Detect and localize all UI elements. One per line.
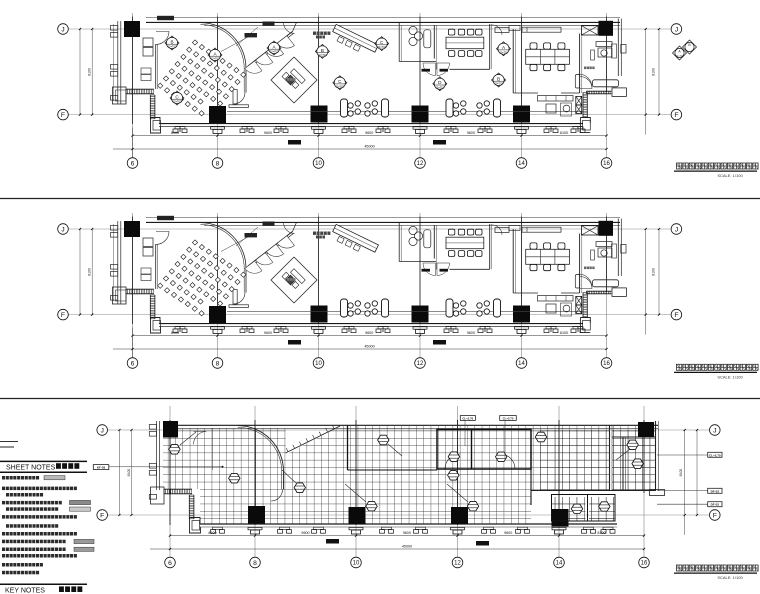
marker B bbox=[492, 73, 506, 87]
closet boxes bbox=[143, 38, 153, 47]
band3 right step bbox=[650, 490, 665, 496]
dim label box bbox=[433, 140, 446, 145]
grid bubble 10 band3 bbox=[351, 557, 362, 568]
svg-text:9600: 9600 bbox=[467, 131, 475, 135]
grid bubble 16 bbox=[601, 158, 612, 169]
grid bubble F right band3 bbox=[710, 510, 721, 521]
band3 room divider bbox=[471, 430, 473, 470]
bench and shelf at exit bbox=[233, 90, 237, 105]
grid line 6 bbox=[132, 13, 134, 158]
svg-text:9600: 9600 bbox=[403, 531, 411, 535]
svg-text:J: J bbox=[100, 427, 103, 434]
svg-text:9600: 9600 bbox=[365, 131, 373, 135]
right elevation double marker bbox=[673, 40, 697, 60]
right dim lines band3 bbox=[684, 430, 686, 535]
tiny room text bbox=[313, 32, 316, 35]
plan title band 3 bbox=[677, 565, 682, 571]
svg-text:SCALE: 1/100: SCALE: 1/100 bbox=[717, 375, 743, 380]
svg-text:J: J bbox=[713, 427, 716, 434]
column grid10/F bbox=[311, 106, 328, 123]
band3 interior wall bbox=[609, 426, 611, 491]
conference room A walls bbox=[433, 25, 435, 59]
plan title band 2 bbox=[677, 364, 682, 370]
grid line 16 bbox=[606, 13, 608, 158]
svg-text:8100: 8100 bbox=[88, 68, 92, 76]
plan title band 1 bbox=[677, 163, 682, 169]
svg-text:CL=2.70: CL=2.70 bbox=[462, 416, 473, 420]
dim label box band3 bbox=[326, 539, 339, 544]
grid bubble 12 band3 bbox=[452, 557, 463, 568]
rotated reception desk bbox=[271, 57, 317, 103]
svg-text:8100: 8100 bbox=[652, 68, 656, 76]
band3 diagonal ticked edge bbox=[286, 426, 341, 453]
svg-text:F: F bbox=[100, 512, 104, 519]
band3 ceiling symbols bbox=[169, 445, 180, 455]
lounge clusters bbox=[341, 99, 348, 117]
marker A bbox=[208, 48, 222, 62]
grid line J band3 bbox=[108, 429, 710, 431]
grid line 14 bbox=[521, 13, 523, 158]
band3 bulkhead edge bbox=[212, 429, 214, 471]
wall at x400 bbox=[398, 22, 400, 61]
svg-text:02=T02: 02=T02 bbox=[211, 57, 220, 61]
svg-text:B: B bbox=[170, 39, 173, 44]
grid line 8 band3 bbox=[254, 406, 256, 557]
svg-text:8100: 8100 bbox=[127, 469, 131, 477]
dim row1 band3 bbox=[170, 535, 644, 537]
svg-text:9600: 9600 bbox=[264, 131, 272, 135]
grid line J bbox=[69, 28, 671, 30]
svg-text:SCALE: 1/100: SCALE: 1/100 bbox=[717, 575, 743, 580]
conference room B walls bbox=[512, 29, 514, 93]
band3 room door arcs bbox=[445, 454, 460, 469]
grid line 10 bbox=[318, 13, 320, 158]
separator line 1 bbox=[0, 198, 760, 200]
phone booth circles bbox=[409, 26, 417, 34]
svg-text:12: 12 bbox=[417, 161, 424, 167]
svg-text:6: 6 bbox=[131, 160, 135, 167]
floor plan band 2 (reuse) bbox=[58, 213, 682, 368]
grid line 16 in building bbox=[606, 17, 608, 93]
grid bubble 14 band3 bbox=[554, 557, 565, 568]
petal fans bbox=[245, 61, 262, 73]
marker B bbox=[315, 44, 329, 58]
booth seat bbox=[424, 30, 431, 48]
grid bubble F right bbox=[671, 109, 682, 120]
grid line 8 bbox=[217, 13, 219, 158]
grid line 8 in building bbox=[217, 17, 219, 125]
diagonal wall bbox=[248, 32, 293, 67]
svg-text:10: 10 bbox=[315, 161, 322, 167]
column grid16/J bbox=[599, 21, 614, 36]
svg-text:B: B bbox=[497, 76, 500, 81]
grid line 12 bbox=[419, 13, 421, 158]
svg-text:8: 8 bbox=[253, 560, 257, 567]
marker A bbox=[497, 42, 511, 56]
grid line 16 band3 bbox=[643, 406, 645, 557]
grid bubble 16 band3 bbox=[639, 557, 650, 568]
svg-text:CL=2.70: CL=2.70 bbox=[709, 453, 721, 457]
curved wall arc bbox=[200, 23, 246, 69]
office sofa bbox=[593, 80, 619, 87]
desk inner items bbox=[282, 67, 305, 90]
left dim lines band3 bbox=[118, 430, 120, 515]
dim label box band3 bbox=[476, 541, 489, 546]
conference A chairs bbox=[448, 29, 454, 35]
x-braced wall top right bbox=[582, 26, 599, 35]
marker D bbox=[433, 77, 447, 91]
grid line 12 in building bbox=[419, 17, 421, 125]
grid line 10 band3 bbox=[355, 406, 357, 557]
grid bubble 8 band3 bbox=[250, 557, 261, 568]
pantry counters bbox=[538, 96, 574, 102]
band3 left facade bbox=[156, 421, 158, 490]
bottom wall window mullions bbox=[173, 127, 187, 133]
band3 right wall bbox=[655, 421, 657, 491]
svg-text:02=T02: 02=T02 bbox=[173, 100, 182, 104]
grid line 14 band3 bbox=[558, 406, 560, 557]
svg-text:02=T02: 02=T02 bbox=[377, 45, 386, 49]
wall y62.5 with double doors bbox=[399, 61, 436, 63]
separator line 2 bbox=[0, 398, 760, 400]
band3 door arc bbox=[271, 490, 283, 502]
band3 columns bbox=[163, 421, 178, 438]
svg-text:J: J bbox=[61, 26, 64, 33]
svg-text:10: 10 bbox=[353, 561, 360, 567]
svg-text:KF-03: KF-03 bbox=[97, 466, 106, 470]
door threshold bbox=[422, 69, 431, 72]
svg-text:02=T02: 02=T02 bbox=[335, 84, 344, 88]
door arc bottom of training room bbox=[234, 93, 246, 105]
svg-text:02=T02: 02=T02 bbox=[168, 45, 177, 49]
exterior bottom wall bbox=[159, 123, 583, 125]
facade mullion tabs bbox=[111, 26, 118, 31]
right facade bbox=[617, 19, 619, 76]
bottom-left step piece bbox=[151, 118, 161, 134]
x-braced wall right bottom bbox=[576, 96, 582, 105]
exterior top wall bbox=[146, 17, 620, 19]
bottom right corner step bbox=[580, 118, 590, 133]
door pod conference B bbox=[575, 75, 579, 89]
band3 arc wall bbox=[238, 426, 284, 472]
dim label box bbox=[288, 140, 301, 145]
svg-text:02=T02: 02=T02 bbox=[435, 85, 444, 89]
grid line 12 band3 bbox=[457, 406, 459, 557]
left facade wall bbox=[117, 21, 119, 104]
corridor line bbox=[227, 110, 583, 112]
band3 top wall bbox=[177, 424, 658, 426]
label box bbox=[263, 22, 275, 26]
band3 wall y490 bbox=[531, 490, 656, 492]
wall below arc bbox=[245, 68, 247, 92]
left dimension lines 8100 bbox=[79, 29, 81, 115]
svg-text:14: 14 bbox=[556, 561, 563, 567]
office door arc bbox=[579, 74, 593, 88]
svg-text:8100: 8100 bbox=[679, 469, 683, 477]
band3 corner step bbox=[151, 487, 165, 504]
grid bubble F left bbox=[58, 109, 69, 120]
label box bbox=[157, 16, 174, 20]
svg-text:CL=2.70: CL=2.70 bbox=[503, 416, 514, 420]
hatched wall right bottom bbox=[586, 90, 611, 92]
svg-text:16: 16 bbox=[603, 161, 610, 167]
svg-text:F: F bbox=[61, 112, 65, 119]
column grid12/F bbox=[412, 106, 429, 123]
dimension row: bay dims bbox=[133, 135, 607, 137]
svg-text:KEY NOTES: KEY NOTES bbox=[5, 588, 45, 594]
svg-text:8: 8 bbox=[216, 160, 220, 167]
left margin dashes bbox=[0, 441, 18, 443]
column grid14/F bbox=[513, 106, 530, 123]
marker C bbox=[375, 37, 389, 51]
grid line 10 in building bbox=[318, 17, 320, 125]
svg-text:J: J bbox=[675, 26, 678, 33]
door arc near diagonal top bbox=[284, 22, 295, 33]
svg-text:9600: 9600 bbox=[504, 531, 512, 535]
dim row2 band3 bbox=[150, 548, 644, 550]
svg-text:16: 16 bbox=[641, 561, 648, 567]
conference B chairs bbox=[530, 43, 537, 49]
svg-text:12: 12 bbox=[454, 561, 461, 567]
column grid6/J bbox=[124, 21, 140, 37]
ceiling tile grid bbox=[150, 420, 670, 530]
svg-text:DF-03: DF-03 bbox=[711, 489, 720, 493]
svg-text:9600: 9600 bbox=[301, 531, 309, 535]
svg-text:SHEET NOTES: SHEET NOTES bbox=[6, 464, 56, 471]
band3 thick wall bbox=[347, 426, 349, 471]
hatched wall horizontal lower-left bbox=[126, 88, 154, 90]
grid bubble 6 bbox=[127, 158, 138, 169]
svg-text:02=T02: 02=T02 bbox=[494, 82, 503, 86]
right dimension lines 8100 bbox=[645, 29, 647, 135]
svg-text:02=T02: 02=T02 bbox=[318, 53, 327, 57]
marker C bbox=[170, 91, 184, 105]
conference A door arc bbox=[492, 25, 502, 35]
sheet notes lines bbox=[2, 476, 5, 480]
band3 left label box KF-03 bbox=[93, 465, 109, 470]
band3 interior wall 2 bbox=[622, 437, 624, 491]
svg-text:02=T02: 02=T02 bbox=[676, 55, 684, 57]
grid bubble 10 bbox=[313, 158, 324, 169]
svg-text:6: 6 bbox=[168, 560, 172, 567]
marker A bbox=[267, 41, 281, 55]
grid bubble J right band3 bbox=[710, 425, 721, 436]
svg-text:8100: 8100 bbox=[560, 131, 568, 135]
dimension row: total 45000 bbox=[113, 148, 607, 150]
office desk cluster bbox=[596, 42, 612, 47]
training room left wall bbox=[155, 44, 157, 89]
leader lines seat room bbox=[221, 37, 248, 52]
band3 interior room (thick border) bbox=[437, 430, 531, 470]
band3 leader arrows bbox=[345, 484, 366, 502]
grid bubble J left bbox=[58, 24, 69, 35]
grid bubble 6 band3 bbox=[165, 557, 176, 568]
band3 bottom mullions bbox=[211, 527, 225, 533]
band3 small rooms bottom right bbox=[552, 495, 616, 522]
marker B bbox=[165, 36, 179, 50]
svg-text:SCALE: 1/100: SCALE: 1/100 bbox=[717, 173, 743, 178]
grid bubble J left band3 bbox=[97, 425, 108, 436]
svg-text:F: F bbox=[674, 112, 678, 119]
grid line F band3 bbox=[108, 514, 710, 516]
svg-text:14: 14 bbox=[518, 161, 525, 167]
conference table B bbox=[526, 49, 570, 64]
svg-text:45000: 45000 bbox=[364, 145, 374, 149]
hatched wall vertical lower-left bbox=[149, 95, 151, 119]
grid line 6 band3 bbox=[169, 406, 171, 557]
sideboards top bbox=[495, 28, 509, 33]
grid bubble 8 bbox=[212, 158, 223, 169]
svg-text:45000: 45000 bbox=[402, 545, 412, 549]
grid bubble J right bbox=[671, 24, 682, 35]
band3 right label boxes bbox=[708, 452, 722, 457]
label box bbox=[245, 33, 258, 37]
door threshold bbox=[440, 69, 449, 72]
column grid8/F bbox=[209, 106, 226, 123]
grid bubble 12 bbox=[415, 158, 426, 169]
svg-text:F: F bbox=[713, 512, 717, 519]
training room entry door arc bbox=[156, 32, 169, 45]
conference table A bbox=[446, 37, 484, 49]
band3 bottom wall bbox=[200, 523, 617, 525]
band3 right room top wall bbox=[612, 436, 656, 438]
grid bubble F left band3 bbox=[97, 510, 108, 521]
training room seats bbox=[192, 40, 197, 45]
bottom-left corner step bbox=[113, 87, 127, 104]
band3 training door arc bbox=[194, 432, 207, 445]
svg-text:B: B bbox=[321, 48, 324, 53]
marker C bbox=[333, 76, 347, 90]
grid line 6 in building bbox=[132, 17, 134, 125]
band3 top label boxes bbox=[460, 416, 475, 421]
grid bubble 14 bbox=[516, 158, 527, 169]
KEY NOTES header bbox=[0, 583, 87, 585]
grid line F bbox=[69, 114, 671, 116]
reception counter bbox=[330, 24, 379, 58]
svg-text:02=T02: 02=T02 bbox=[270, 50, 279, 54]
grid line 14 in building bbox=[521, 17, 523, 125]
svg-text:02=T02: 02=T02 bbox=[499, 50, 508, 54]
svg-text:DF-03: DF-03 bbox=[711, 503, 720, 507]
SHEET NOTES header bbox=[0, 460, 87, 462]
